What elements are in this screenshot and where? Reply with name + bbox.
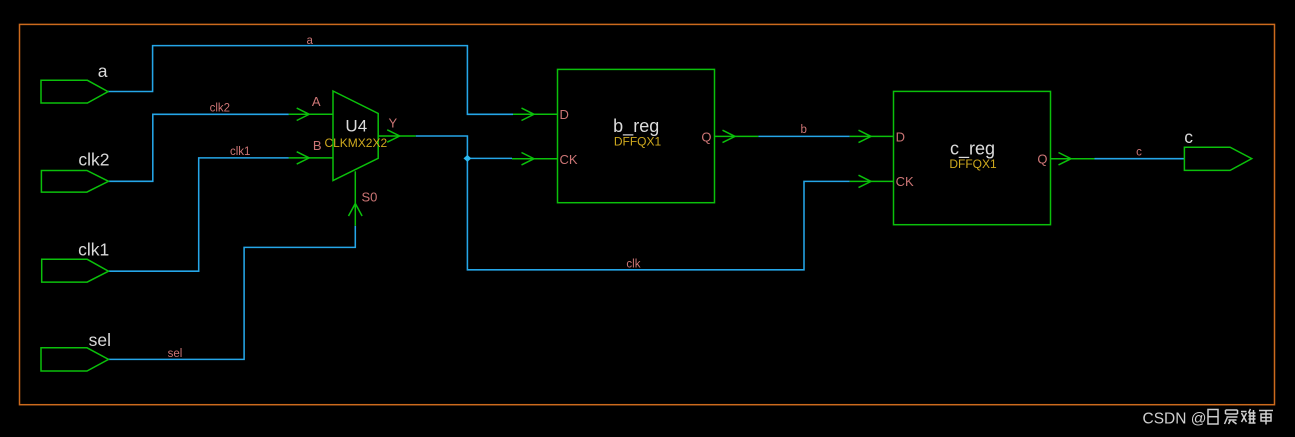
svg-text:Q: Q — [701, 130, 711, 145]
svg-text:S0: S0 — [362, 189, 378, 204]
svg-text:DFFQX1: DFFQX1 — [614, 135, 662, 149]
svg-text:A: A — [312, 94, 321, 109]
svg-text:D: D — [560, 107, 569, 122]
svg-text:CK: CK — [560, 152, 578, 167]
svg-text:Q: Q — [1037, 152, 1047, 167]
svg-text:c: c — [1184, 127, 1193, 147]
svg-text:clk: clk — [626, 259, 640, 271]
svg-text:a: a — [98, 61, 108, 81]
svg-text:CK: CK — [896, 174, 914, 189]
svg-text:clk2: clk2 — [210, 103, 230, 115]
svg-text:clk2: clk2 — [78, 150, 109, 170]
svg-text:D: D — [896, 129, 905, 144]
svg-text:CLKMX2X2: CLKMX2X2 — [324, 136, 387, 150]
svg-text:DFFQX1: DFFQX1 — [949, 157, 997, 171]
svg-text:clk1: clk1 — [230, 146, 250, 158]
svg-text:clk1: clk1 — [78, 240, 109, 260]
svg-text:sel: sel — [89, 330, 111, 350]
svg-text:c: c — [1136, 147, 1142, 159]
svg-text:Y: Y — [389, 116, 398, 131]
svg-text:B: B — [313, 138, 322, 153]
svg-text:a: a — [307, 35, 314, 47]
svg-text:sel: sel — [168, 348, 183, 360]
svg-text:U4: U4 — [345, 117, 367, 136]
svg-text:b: b — [801, 124, 807, 136]
svg-text:CSDN @: CSDN @ — [1143, 410, 1207, 427]
